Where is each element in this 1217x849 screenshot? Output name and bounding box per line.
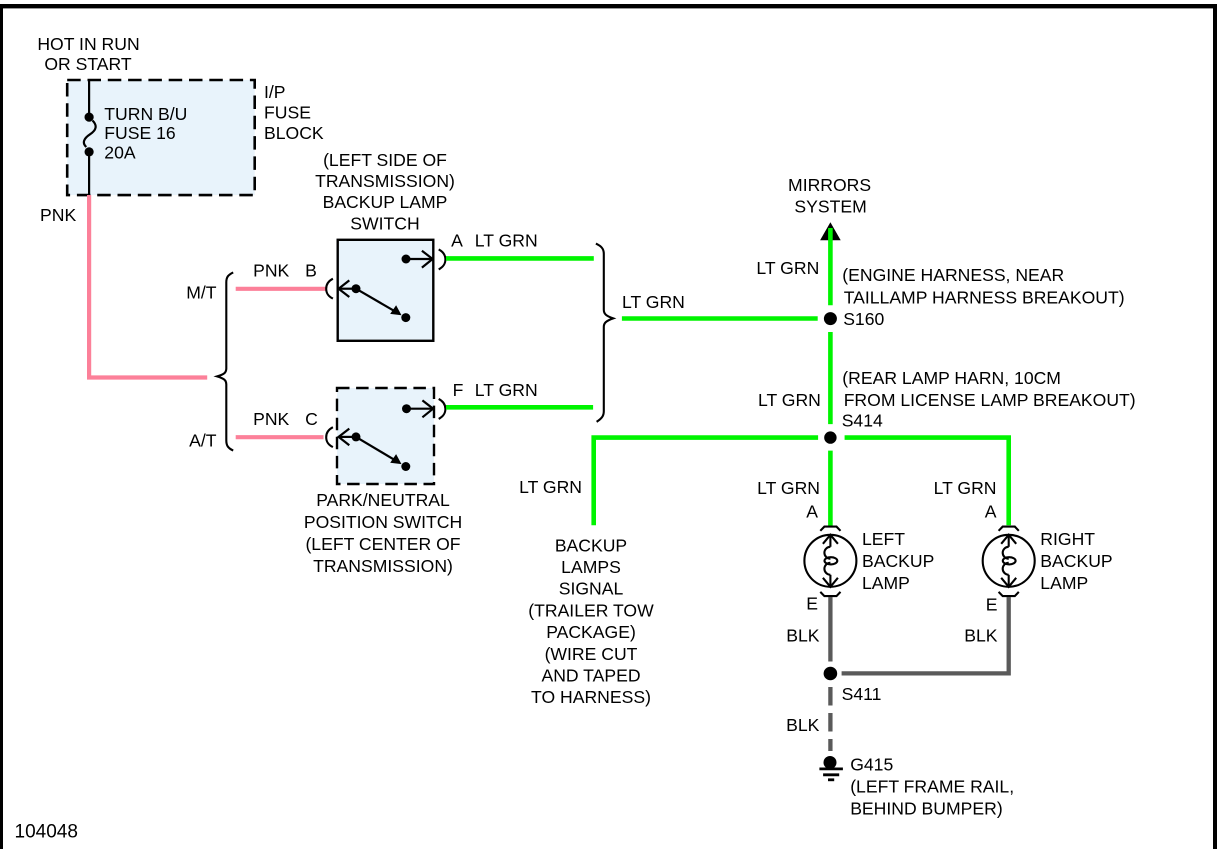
svg-text:LAMPS: LAMPS bbox=[561, 557, 621, 577]
wire LT GRN S414 left branch down to signal stub bbox=[594, 438, 818, 526]
wire LT GRN S414 right branch to right lamp bbox=[845, 438, 1009, 526]
svg-text:BACKUP: BACKUP bbox=[862, 551, 934, 571]
svg-text:(LEFT SIDE OF: (LEFT SIDE OF bbox=[323, 150, 447, 170]
brace joining LT GRN wires bbox=[596, 244, 613, 422]
svg-text:BLK: BLK bbox=[786, 715, 820, 735]
connector half B at switch input bbox=[326, 279, 333, 299]
svg-text:A: A bbox=[985, 502, 997, 522]
wire PNK to terminal B bbox=[236, 287, 326, 291]
svg-text:(WIRE CUT: (WIRE CUT bbox=[545, 644, 638, 664]
svg-text:TO HARNESS): TO HARNESS) bbox=[531, 687, 651, 707]
svg-text:E: E bbox=[806, 594, 818, 614]
wire LT GRN up to arrow bbox=[828, 228, 833, 305]
svg-text:LAMP: LAMP bbox=[1040, 573, 1088, 593]
svg-text:FUSE 16: FUSE 16 bbox=[104, 123, 176, 143]
connector half A at switch output bbox=[439, 249, 446, 269]
border frame left bbox=[0, 4, 3, 849]
svg-text:S411: S411 bbox=[842, 684, 882, 704]
svg-text:TURN B/U: TURN B/U bbox=[104, 104, 187, 124]
wire PNK to terminal C bbox=[236, 435, 324, 439]
splice S414 bbox=[824, 431, 836, 443]
svg-text:BLOCK: BLOCK bbox=[264, 123, 324, 143]
arrow to mirrors system bbox=[820, 222, 841, 240]
svg-text:S414: S414 bbox=[842, 410, 883, 430]
wire LT GRN from F bbox=[446, 405, 593, 410]
svg-text:TRANSMISSION): TRANSMISSION) bbox=[315, 171, 455, 191]
splice S411 bbox=[824, 667, 838, 681]
svg-text:(ENGINE HARNESS, NEAR: (ENGINE HARNESS, NEAR bbox=[842, 265, 1064, 285]
wire PNK from fuse to brace bbox=[89, 195, 207, 378]
svg-text:BACKUP LAMP: BACKUP LAMP bbox=[323, 192, 448, 212]
svg-text:F: F bbox=[453, 380, 464, 400]
svg-text:AND TAPED: AND TAPED bbox=[541, 666, 640, 686]
svg-text:SIGNAL: SIGNAL bbox=[559, 579, 624, 599]
svg-text:A/T: A/T bbox=[189, 431, 217, 451]
brace splitting M/T A/T bbox=[217, 272, 233, 450]
svg-text:LT GRN: LT GRN bbox=[519, 477, 582, 497]
svg-text:SYSTEM: SYSTEM bbox=[794, 196, 866, 216]
svg-text:I/P: I/P bbox=[264, 82, 286, 102]
svg-text:G415: G415 bbox=[850, 754, 893, 774]
wire BLK right lamp to S411 bbox=[842, 597, 1009, 673]
svg-text:BLK: BLK bbox=[964, 626, 998, 646]
park/neutral switch contacts bbox=[339, 400, 434, 462]
svg-text:RIGHT: RIGHT bbox=[1040, 529, 1095, 549]
svg-text:104048: 104048 bbox=[15, 822, 78, 843]
fuse TURN B/U FUSE 16 20A bbox=[84, 80, 96, 195]
svg-text:HOT IN RUN: HOT IN RUN bbox=[37, 34, 139, 54]
svg-text:LT GRN: LT GRN bbox=[758, 390, 821, 410]
wire LT GRN S160 to S414 bbox=[828, 332, 833, 424]
svg-text:M/T: M/T bbox=[186, 282, 217, 302]
svg-text:LT GRN: LT GRN bbox=[475, 230, 538, 250]
svg-text:PARK/NEUTRAL: PARK/NEUTRAL bbox=[316, 490, 450, 510]
svg-text:(LEFT CENTER OF: (LEFT CENTER OF bbox=[305, 534, 460, 554]
svg-text:SWITCH: SWITCH bbox=[350, 214, 419, 234]
svg-text:LT GRN: LT GRN bbox=[756, 258, 819, 278]
svg-text:E: E bbox=[986, 595, 998, 615]
svg-text:PACKAGE): PACKAGE) bbox=[546, 622, 636, 642]
wire LT GRN brace to S160 bbox=[622, 316, 818, 321]
svg-text:TAILLAMP HARNESS BREAKOUT): TAILLAMP HARNESS BREAKOUT) bbox=[844, 287, 1125, 307]
svg-text:OR START: OR START bbox=[44, 54, 132, 74]
svg-text:LAMP: LAMP bbox=[862, 573, 910, 593]
svg-text:PNK: PNK bbox=[253, 409, 289, 429]
wire LT GRN S414 down to left lamp bbox=[828, 451, 833, 526]
left backup lamp bbox=[804, 527, 856, 597]
border frame top bbox=[0, 4, 1217, 8]
svg-text:(LEFT FRAME RAIL,: (LEFT FRAME RAIL, bbox=[850, 776, 1014, 796]
fuse block I/P dashed box bbox=[67, 80, 255, 195]
svg-text:BEHIND BUMPER): BEHIND BUMPER) bbox=[850, 799, 1003, 819]
wire BLK left lamp to S411 bbox=[828, 597, 832, 662]
svg-text:LEFT: LEFT bbox=[862, 529, 905, 549]
svg-text:B: B bbox=[305, 261, 317, 281]
connector half C at switch input bbox=[326, 427, 333, 447]
svg-text:POSITION SWITCH: POSITION SWITCH bbox=[304, 512, 462, 532]
svg-text:PNK: PNK bbox=[253, 261, 289, 281]
border frame right bbox=[1213, 4, 1217, 849]
svg-text:MIRRORS: MIRRORS bbox=[788, 175, 871, 195]
svg-text:LT GRN: LT GRN bbox=[475, 380, 538, 400]
backup lamp switch box bbox=[338, 240, 434, 341]
svg-text:TRANSMISSION): TRANSMISSION) bbox=[313, 556, 453, 576]
svg-text:PNK: PNK bbox=[40, 205, 76, 225]
backup lamp switch contacts bbox=[339, 251, 433, 314]
svg-text:A: A bbox=[451, 230, 463, 250]
ground G415 bbox=[824, 756, 837, 769]
splice S160 bbox=[824, 312, 837, 325]
svg-text:S160: S160 bbox=[843, 309, 884, 329]
wire LT GRN from A bbox=[446, 256, 594, 261]
svg-text:BLK: BLK bbox=[786, 626, 820, 646]
svg-text:BACKUP: BACKUP bbox=[1040, 551, 1112, 571]
svg-text:LT GRN: LT GRN bbox=[934, 478, 997, 498]
svg-text:FROM LICENSE LAMP BREAKOUT): FROM LICENSE LAMP BREAKOUT) bbox=[844, 390, 1136, 410]
svg-text:LT GRN: LT GRN bbox=[757, 478, 820, 498]
svg-text:LT GRN: LT GRN bbox=[622, 292, 685, 312]
svg-text:20A: 20A bbox=[104, 143, 136, 163]
svg-text:BACKUP: BACKUP bbox=[555, 535, 627, 555]
wire BLK dashed S411 to ground bbox=[828, 687, 832, 751]
svg-text:C: C bbox=[305, 409, 318, 429]
right backup lamp bbox=[983, 527, 1035, 597]
svg-text:(TRAILER TOW: (TRAILER TOW bbox=[528, 600, 654, 620]
park/neutral position switch box (dashed) bbox=[337, 388, 434, 484]
svg-text:A: A bbox=[806, 502, 818, 522]
svg-text:(REAR LAMP HARN, 10CM: (REAR LAMP HARN, 10CM bbox=[842, 368, 1061, 388]
connector half F at switch output bbox=[439, 399, 446, 419]
svg-text:FUSE: FUSE bbox=[264, 103, 311, 123]
